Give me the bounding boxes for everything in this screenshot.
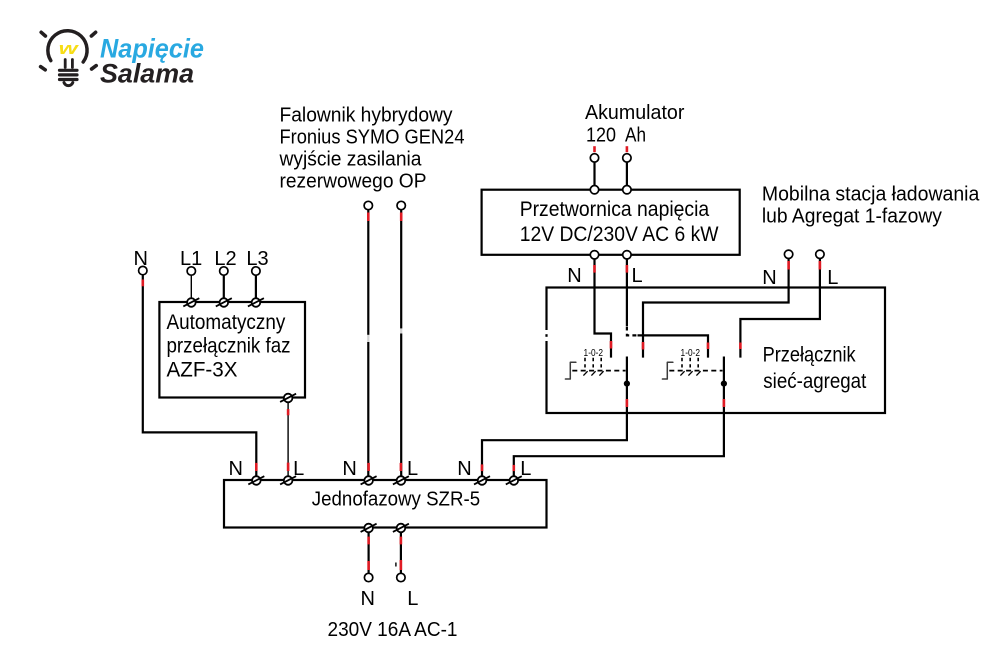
wire L1 to AZF [190, 275, 192, 302]
box przetwornica label [520, 198, 719, 246]
bulb base bar 1 [60, 69, 78, 72]
label Falownik hybrydowy block [279, 105, 465, 193]
svg-text:1-0-2: 1-0-2 [681, 348, 701, 359]
svg-text:1-0-2: 1-0-2 [584, 348, 604, 359]
terminal circle przetwornica bottom N [590, 251, 598, 259]
switch1 junction dot [624, 381, 630, 387]
terminal SZR top N2 [361, 476, 377, 485]
terminal circle battery N [590, 154, 598, 162]
svg-text:rezerwowego OP: rezerwowego OP [280, 171, 427, 193]
ray lower-left [41, 67, 46, 70]
logo Napiecie Salama [41, 31, 204, 89]
terminal circle przetwornica top L [623, 186, 631, 194]
svg-text:Automatyczny: Automatyczny [167, 311, 286, 334]
terminal SZR bottom L [393, 524, 409, 533]
red mark przetwornica L out [626, 265, 629, 273]
svg-text:Przełącznik: Przełącznik [763, 344, 856, 367]
red mark AZF L out [287, 409, 290, 415]
svg-text:N: N [342, 458, 356, 480]
terminal labels N L [134, 248, 839, 610]
svg-text:N: N [229, 458, 243, 480]
terminal AZF top L1 [183, 298, 199, 307]
switch1 actuator hook [565, 362, 576, 379]
wire falownik L to SZR [400, 210, 402, 480]
svg-text:N: N [762, 267, 776, 289]
bulb base bar 3 [60, 78, 78, 81]
switch2 junction dot [721, 381, 727, 387]
bulb neck right [71, 60, 74, 68]
svg-text:lub Agregat 1-fazowy: lub Agregat 1-fazowy [762, 206, 942, 228]
red mark above out circle L [400, 560, 403, 570]
red mark above SZR N3 [481, 464, 484, 471]
box AZF label [167, 311, 291, 381]
switch1 moving contacts [583, 371, 603, 375]
svg-text:L: L [632, 265, 643, 287]
terminal circle battery L [623, 154, 631, 162]
terminal circle falownik L [397, 201, 405, 209]
red mark below SZR out N [367, 537, 370, 545]
svg-text:12V DC/230V AC 6 kW: 12V DC/230V AC 6 kW [520, 223, 719, 246]
terminal SZR top L1 [280, 476, 296, 485]
svg-text:Przetwornica napięcia: Przetwornica napięcia [520, 198, 710, 221]
svg-text:230V 16A AC-1: 230V 16A AC-1 [328, 619, 458, 641]
watermark notch on falownik N wire [367, 335, 370, 342]
box przelacznik label [763, 344, 867, 394]
svg-text:przełącznik faz: przełącznik faz [167, 334, 291, 357]
watermark notch on falownik L wire [400, 328, 403, 333]
wire battery N [593, 162, 595, 186]
red mark switch2 output [723, 399, 726, 407]
ray lower-right [92, 66, 97, 69]
red mark switch1 pole2 [642, 342, 645, 350]
wire switch1 output to SZR N3 [482, 357, 627, 481]
wire przetwornica L to switch2 pole1 (solid part) [626, 259, 628, 326]
red mark przetwornica N out [593, 265, 596, 273]
svg-text:Mobilna stacja ładowania: Mobilna stacja ładowania [762, 183, 980, 205]
svg-text:L: L [827, 267, 838, 289]
box przelacznik siec-agregat [547, 288, 886, 414]
switch1 dashed linkage [572, 370, 625, 372]
switch2 position dashes [682, 358, 698, 368]
terminal AZF top L3 [248, 298, 264, 307]
red mark above SZR L2 [400, 463, 403, 471]
red mark above SZR N2 [367, 463, 370, 471]
switch 2 internals [662, 348, 727, 387]
red mark switch2 pole2 [739, 343, 742, 350]
terminal circle SZR out L [397, 573, 405, 581]
svg-text:Salama: Salama [100, 59, 194, 89]
terminal SZR top L3 [506, 476, 522, 485]
wire przetwornica L corner dashed [627, 327, 638, 336]
box przetwornica napiecia [482, 190, 740, 255]
switch2 dashed linkage [669, 370, 722, 372]
red mark battery N [593, 146, 596, 152]
terminal circle przetwornica bottom L [623, 251, 631, 259]
wire przetwornica L horizontal to pole1 sw2 [638, 335, 709, 357]
terminal SZR top N3 [474, 476, 490, 485]
wire falownik N to SZR [367, 210, 369, 480]
red mark below SZR out L [400, 537, 403, 545]
terminal AZF bottom L [280, 394, 296, 403]
red mark generator N [787, 261, 790, 270]
svg-text:AZF-3X: AZF-3X [167, 358, 238, 381]
terminal SZR bottom N [361, 524, 377, 533]
red mark battery L [626, 146, 629, 152]
svg-text:wyjście zasilania: wyjście zasilania [279, 149, 423, 171]
terminal circle SZR out N [364, 573, 372, 581]
svg-text:Falownik hybrydowy: Falownik hybrydowy [280, 105, 453, 127]
wire L3 to AZF [255, 275, 257, 302]
terminal circle generator L [816, 250, 824, 258]
svg-text:N: N [567, 265, 581, 287]
gap marks on przelacznik left edge [544, 330, 548, 341]
svg-text:120: 120 [586, 125, 616, 147]
terminal circle L1 [187, 267, 195, 275]
wire battery L [626, 162, 628, 186]
switch2 moving contacts [680, 371, 700, 375]
svg-text:L: L [407, 588, 418, 610]
terminal SZR top L2 [393, 476, 409, 485]
tiny tick near L output [395, 563, 397, 567]
switch1 position dashes [585, 358, 601, 368]
red mark falownik L [400, 213, 403, 222]
box jednofazowy SZR-5 [224, 480, 547, 528]
terminal circle N left [139, 266, 147, 274]
label Akumulator 120 Ah [585, 102, 685, 147]
terminal circle L3 [252, 267, 260, 275]
box automatyczny przelacznik faz AZF-3X [159, 302, 305, 398]
bulb base bar 2 [60, 73, 78, 76]
ray upper-right [91, 32, 95, 36]
svg-text:Akumulator: Akumulator [585, 102, 685, 124]
red mark switch1 output [626, 399, 629, 407]
wire generator L to switch2 pole2 [740, 258, 820, 357]
svg-text:w: w [59, 39, 81, 58]
svg-text:Jednofazowy SZR-5: Jednofazowy SZR-5 [312, 489, 480, 511]
svg-text:Fronius SYMO GEN24: Fronius SYMO GEN24 [280, 127, 465, 149]
red mark above SZR N1 [255, 463, 258, 471]
terminal AZF top L2 [216, 298, 232, 307]
wire generator N to switch1 pole2 [643, 258, 789, 357]
terminal circle falownik N [364, 201, 372, 209]
red mark falownik N [367, 213, 370, 222]
open terminal circles [139, 154, 825, 582]
terminal SZR top N1 [248, 476, 264, 485]
svg-text:N: N [457, 458, 471, 480]
ray upper-left [41, 32, 45, 36]
wire SZR output L [400, 528, 402, 573]
terminal circle generator N [784, 250, 792, 258]
wire AZF out L to SZR [287, 398, 289, 481]
red mark N left [142, 280, 145, 287]
red mark above out circle N [367, 561, 370, 570]
wire przetwornica N to switch1 pole1 [595, 259, 612, 358]
wire SZR output N [368, 528, 370, 573]
bulb bottom cup [64, 83, 73, 86]
label Mobilna stacja ladowania [762, 183, 980, 227]
slashed terminals [183, 298, 522, 532]
bulb neck left [64, 60, 67, 68]
red connection marks [143, 146, 820, 570]
wire switch2 output to SZR L3 [514, 357, 724, 481]
bulb glass arc [48, 31, 87, 62]
svg-text:N: N [361, 588, 375, 610]
wire L2 to AZF [223, 275, 225, 302]
red mark switch2 pole1 [707, 343, 710, 350]
wire N left to SZR [143, 275, 256, 480]
terminal circle przetwornica top N [590, 186, 598, 194]
svg-text:Ah: Ah [625, 125, 646, 147]
red mark above SZR L1 [287, 463, 290, 471]
switch2 actuator hook [662, 362, 673, 379]
svg-text:sieć-agregat: sieć-agregat [763, 370, 866, 393]
red mark switch1 pole1 [610, 341, 613, 349]
red mark above SZR L3 [512, 465, 515, 471]
terminal circle L2 [220, 267, 228, 275]
switch 1 internals [565, 348, 630, 387]
red mark generator L [819, 261, 822, 270]
